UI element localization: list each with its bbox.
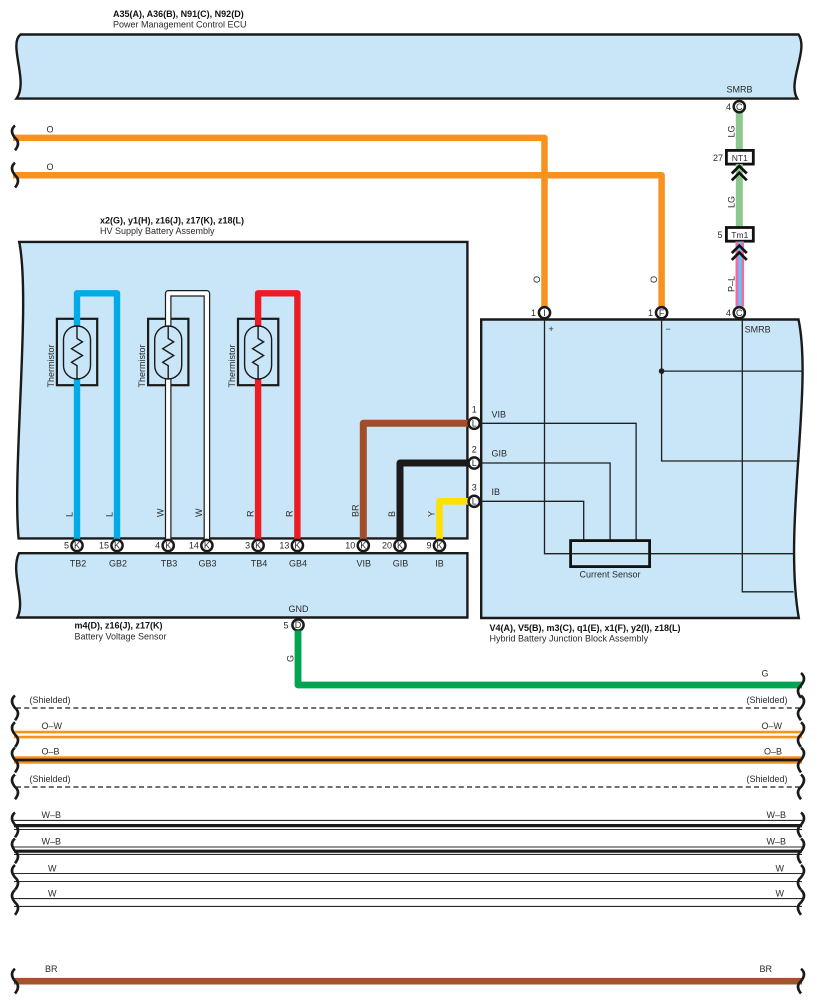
svg-text:A35(A), A36(B), N91(C), N92(D): A35(A), A36(B), N91(C), N92(D) xyxy=(113,9,244,19)
svg-text:K: K xyxy=(255,541,261,551)
svg-text:NT1: NT1 xyxy=(732,153,748,163)
svg-text:K: K xyxy=(165,541,171,551)
svg-text:m4(D), z16(J), z17(K): m4(D), z16(J), z17(K) xyxy=(75,621,163,631)
svg-text:K: K xyxy=(74,541,80,551)
svg-text:(Shielded): (Shielded) xyxy=(30,774,71,784)
svg-text:F: F xyxy=(659,308,665,318)
svg-text:15: 15 xyxy=(99,541,109,551)
svg-text:GIB: GIB xyxy=(492,448,508,458)
connector 4 C (lower) xyxy=(734,307,745,318)
svg-text:TB2: TB2 xyxy=(70,559,87,569)
svg-text:L: L xyxy=(472,497,477,507)
junction dot on F line xyxy=(659,368,665,374)
svg-text:GB3: GB3 xyxy=(198,559,216,569)
svg-text:−: − xyxy=(666,324,671,334)
wire G (green ground) xyxy=(298,631,802,686)
svg-text:W–B: W–B xyxy=(766,837,786,847)
svg-text:R: R xyxy=(245,510,255,517)
svg-text:W: W xyxy=(194,508,204,517)
thermistor 1 box xyxy=(57,319,97,385)
svg-text:GB2: GB2 xyxy=(109,559,127,569)
svg-text:R: R xyxy=(285,510,295,517)
svg-text:14: 14 xyxy=(189,541,199,551)
svg-text:5: 5 xyxy=(717,230,722,240)
svg-text:Tm1: Tm1 xyxy=(731,230,748,240)
svg-text:G: G xyxy=(761,669,768,679)
svg-text:O–W: O–W xyxy=(42,721,63,731)
svg-text:IB: IB xyxy=(492,487,501,497)
svg-text:Thermistor: Thermistor xyxy=(137,344,147,387)
svg-text:BR: BR xyxy=(350,504,360,517)
thermistor 2 box xyxy=(148,319,188,385)
svg-text:W–B: W–B xyxy=(766,810,786,820)
svg-text:VIB: VIB xyxy=(492,409,507,419)
connector 1 I xyxy=(539,307,550,318)
svg-text:GIB: GIB xyxy=(393,559,409,569)
svg-text:TB3: TB3 xyxy=(161,559,178,569)
svg-text:4: 4 xyxy=(726,308,731,318)
svg-text:x2(G), y1(H), z16(J), z17(K),: x2(G), y1(H), z16(J), z17(K), z18(L) xyxy=(100,215,244,225)
break squiggle xyxy=(12,126,18,151)
svg-text:V4(A), V5(B), m3(C), q1(E), x1: V4(A), V5(B), m3(C), q1(E), x1(F), y2(I)… xyxy=(490,623,681,633)
svg-text:SMRB: SMRB xyxy=(726,85,752,95)
svg-text:O: O xyxy=(47,125,54,135)
connector 5 D (GND) xyxy=(292,619,303,630)
internal wire VIB xyxy=(480,423,636,540)
svg-text:27: 27 xyxy=(713,153,723,163)
svg-text:HV Supply Battery Assembly: HV Supply Battery Assembly xyxy=(100,226,215,236)
svg-text:W–B: W–B xyxy=(42,837,62,847)
svg-text:W: W xyxy=(156,508,166,517)
svg-text:1: 1 xyxy=(531,308,536,318)
thermistor 3 element xyxy=(245,326,272,379)
Hybrid Battery Junction Block Assembly box xyxy=(481,320,802,619)
svg-text:K: K xyxy=(436,541,442,551)
svg-text:13: 13 xyxy=(279,541,289,551)
svg-text:D: D xyxy=(295,620,302,630)
svg-text:K: K xyxy=(397,541,403,551)
connector 4 C (SMRB pin) xyxy=(734,101,745,112)
svg-text:W: W xyxy=(776,889,785,899)
svg-text:IB: IB xyxy=(435,559,444,569)
svg-text:4: 4 xyxy=(155,541,160,551)
svg-text:(Shielded): (Shielded) xyxy=(746,695,787,705)
svg-text:G: G xyxy=(286,655,296,662)
internal wire IB xyxy=(480,501,584,540)
svg-text:4: 4 xyxy=(726,102,731,112)
svg-text:+: + xyxy=(549,324,554,334)
svg-text:1: 1 xyxy=(472,405,477,415)
wire L (blue loop, TB2-GB2) xyxy=(77,293,117,541)
junction Tm1 xyxy=(726,228,753,242)
thermistor 3 box xyxy=(238,319,278,385)
svg-text:L: L xyxy=(104,512,114,517)
svg-text:Thermistor: Thermistor xyxy=(46,344,56,387)
svg-text:3: 3 xyxy=(472,483,477,493)
svg-text:(Shielded): (Shielded) xyxy=(30,695,71,705)
current sensor xyxy=(571,541,650,567)
Battery Voltage Sensor band xyxy=(16,553,467,617)
wire O (orange, to F −) xyxy=(13,175,662,307)
svg-text:Y: Y xyxy=(427,511,437,517)
internal SMRB wire xyxy=(742,320,793,592)
Power Management Control ECU band xyxy=(16,35,801,99)
svg-text:Current Sensor: Current Sensor xyxy=(579,570,640,580)
svg-text:K: K xyxy=(114,541,120,551)
svg-text:Power Management Control ECU: Power Management Control ECU xyxy=(113,20,247,30)
wire W (white loop, TB3-GB3) xyxy=(168,293,207,541)
svg-text:O: O xyxy=(649,276,659,283)
connector 2 L (GIB) xyxy=(469,457,480,468)
svg-text:O–B: O–B xyxy=(764,747,782,757)
wire Y (yellow, IB) xyxy=(440,501,469,541)
connector 1 L (VIB) xyxy=(469,418,480,429)
svg-text:W: W xyxy=(776,864,785,874)
svg-text:O–W: O–W xyxy=(761,721,782,731)
chevrons below NT1 xyxy=(732,166,747,180)
svg-text:(Shielded): (Shielded) xyxy=(746,774,787,784)
wire LG (NT1 to Tm1) xyxy=(736,164,743,228)
svg-text:L: L xyxy=(64,512,74,517)
svg-text:Hybrid Battery Junction Block: Hybrid Battery Junction Block Assembly xyxy=(490,634,649,644)
svg-text:LG: LG xyxy=(727,125,737,137)
svg-text:C: C xyxy=(736,308,743,318)
break squiggle xyxy=(12,163,18,188)
svg-text:Thermistor: Thermistor xyxy=(227,344,237,387)
svg-text:20: 20 xyxy=(382,541,392,551)
svg-text:9: 9 xyxy=(426,541,431,551)
svg-text:K: K xyxy=(204,541,210,551)
wire O (orange, to I +) xyxy=(13,138,545,308)
svg-text:LG: LG xyxy=(727,196,737,208)
svg-text:C: C xyxy=(736,102,743,112)
thermistor 2 element xyxy=(155,326,182,379)
svg-text:3: 3 xyxy=(245,541,250,551)
svg-text:O: O xyxy=(47,162,54,172)
chevrons below Tm1 xyxy=(732,246,747,260)
HV Supply Battery Assembly box xyxy=(17,242,467,539)
internal wire from dot to right edge xyxy=(662,370,803,372)
wire R (red loop, TB4-GB4) xyxy=(258,293,297,541)
wire LG (C to NT1) xyxy=(736,110,743,151)
svg-text:K: K xyxy=(294,541,300,551)
svg-text:Battery Voltage Sensor: Battery Voltage Sensor xyxy=(75,632,167,642)
wire P-L (pink w/ light blue stripe) xyxy=(736,242,745,307)
internal wire GIB xyxy=(480,463,610,541)
wire BR (brown, VIB) xyxy=(363,423,468,541)
svg-text:W: W xyxy=(48,889,57,899)
svg-text:5: 5 xyxy=(283,620,288,630)
svg-text:W: W xyxy=(48,864,57,874)
connector row: pins 5,15,4,14,3,13,10,20,9 (K) xyxy=(64,541,432,551)
svg-text:BR: BR xyxy=(759,964,772,974)
svg-text:TB4: TB4 xyxy=(251,559,268,569)
svg-text:O–B: O–B xyxy=(42,747,60,757)
svg-text:5: 5 xyxy=(64,541,69,551)
svg-text:BR: BR xyxy=(45,964,58,974)
svg-text:GND: GND xyxy=(289,604,310,614)
svg-text:I: I xyxy=(543,308,546,318)
connector 3 L (IB) xyxy=(469,496,480,507)
svg-text:VIB: VIB xyxy=(357,559,372,569)
svg-text:2: 2 xyxy=(472,444,477,454)
break squiggle right of G xyxy=(798,673,804,698)
svg-text:GB4: GB4 xyxy=(289,559,307,569)
internal wire from F (−) xyxy=(662,320,800,462)
svg-text:P–L: P–L xyxy=(727,276,737,292)
connector 1 F xyxy=(656,307,667,318)
wire B (black, GIB) xyxy=(400,463,469,541)
internal wire from I (+) xyxy=(545,320,796,554)
svg-text:10: 10 xyxy=(345,541,355,551)
junction NT1 xyxy=(726,150,753,164)
svg-text:1: 1 xyxy=(648,308,653,318)
svg-text:W–B: W–B xyxy=(42,810,62,820)
svg-text:B: B xyxy=(387,511,397,517)
svg-text:L: L xyxy=(472,458,477,468)
svg-text:L: L xyxy=(472,419,477,429)
svg-text:SMRB: SMRB xyxy=(745,325,771,335)
svg-text:K: K xyxy=(360,541,366,551)
node names TB2..IB xyxy=(70,559,444,569)
thermistor 1 element xyxy=(64,326,91,379)
svg-text:O: O xyxy=(532,276,542,283)
